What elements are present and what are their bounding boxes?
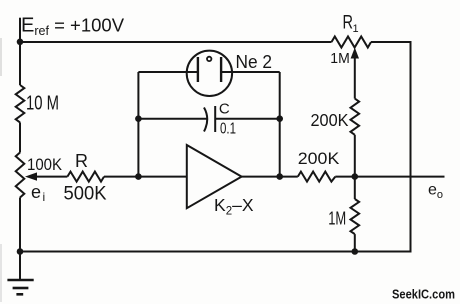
svg-text:Ne 2: Ne 2 (236, 52, 273, 72)
junction dot 1M bottom rail node (352, 248, 359, 255)
wire left rail upper (node to 10M) (19, 42, 21, 85)
wire feedback left vertical (137, 72, 139, 177)
capacitor C straight plate (214, 106, 216, 132)
wire right rail vertical (410, 41, 412, 252)
svg-text:200K: 200K (298, 149, 340, 168)
scan smudge left edge lower (0, 244, 2, 302)
ground symbol bar 2 (13, 287, 29, 290)
svg-text:1M: 1M (330, 50, 350, 67)
svg-text:1M: 1M (328, 208, 346, 228)
wire node to 1M vertical (354, 177, 356, 199)
resistor 1M vertical zigzag (351, 199, 360, 234)
resistor R 500K horizontal zigzag (67, 172, 104, 182)
svg-text:K2–X: K2–X (214, 195, 254, 218)
wire capacitor right lead (215, 118, 280, 120)
ground symbol bar 3 (16, 293, 23, 296)
scan smudge left edge upper (0, 38, 2, 76)
neon lamp Ne2 envelope circle (187, 51, 232, 96)
wire Eref stub vertical (19, 18, 21, 42)
wire top rail right segment (371, 41, 411, 43)
svg-text:100K: 100K (27, 155, 63, 174)
wire 200K vertical to node (354, 135, 356, 177)
wire left rail lower (pot to bottom rail) (19, 198, 21, 252)
junction dot op-amp input node (135, 173, 142, 180)
wire 500K to op-amp input (104, 176, 187, 178)
wire capacitor left lead (138, 118, 207, 120)
op-amp K2-X triangle (187, 145, 242, 208)
potentiometer 100K vertical zigzag (16, 153, 25, 198)
wire bottom rail (19, 251, 412, 253)
resistor R1 (1M pot) horizontal zigzag (332, 37, 372, 48)
wire 1M to bottom rail (354, 234, 356, 251)
junction dot feedback-right / capacitor (276, 115, 283, 122)
svg-text:500K: 500K (64, 184, 107, 205)
junction dot 200K/1M node (352, 173, 359, 180)
junction dot Eref node (17, 39, 24, 46)
svg-text:C: C (219, 101, 230, 118)
neon lamp Ne2 left electrode (197, 57, 199, 82)
svg-text:200K: 200K (311, 110, 349, 130)
svg-text:R: R (75, 151, 88, 171)
potentiometer R1 wiper arrowhead (351, 48, 359, 59)
junction dot ground node (17, 248, 24, 255)
wire 200K to output terminal e_o (335, 176, 444, 178)
wire op-amp output to 200K (242, 176, 298, 178)
svg-text:0.1: 0.1 (220, 121, 236, 138)
resistor 200K vertical zigzag (351, 99, 360, 135)
wire neon loop top right segment (221, 71, 280, 73)
wire neon loop top left segment (138, 71, 198, 73)
resistor 200K horizontal zigzag (298, 172, 336, 182)
capacitor C curved plate (204, 108, 207, 132)
junction dot feedback-left / capacitor (135, 115, 142, 122)
wire ground stub (19, 252, 21, 281)
wire top rail left segment (Eref node to R1) (20, 41, 332, 43)
potentiometer 100K wiper arrowhead (25, 172, 37, 180)
wire wiper arrow line of 100K pot to 500K (36, 176, 67, 178)
svg-text:SeekIC.com: SeekIC.com (392, 288, 455, 302)
wire feedback right vertical (279, 72, 281, 177)
ground symbol bar 1 (7, 279, 33, 282)
neon lamp Ne2 right electrode (220, 57, 222, 82)
resistor 10M vertical zigzag (16, 85, 25, 122)
svg-text:10 M: 10 M (26, 93, 59, 115)
wire left rail middle (10M to 100K pot) (19, 122, 21, 152)
neon lamp Ne2 gas dot (207, 57, 211, 61)
wire R1 wiper vertical to 200K (354, 55, 356, 99)
junction dot op-amp output node (276, 173, 283, 180)
